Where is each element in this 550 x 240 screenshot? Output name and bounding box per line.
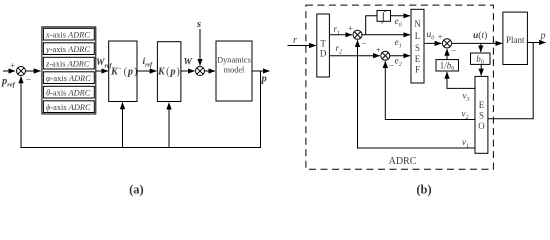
- wire 1/b0 to junction B3: [446, 49, 448, 60]
- wire feedback riser into K block: [168, 103, 170, 148]
- wire A2 to Dynamics model: [205, 70, 216, 72]
- svg-text:iref: iref: [143, 57, 154, 69]
- wire branch into b0: [480, 43, 482, 52]
- svg-text:b0: b0: [476, 54, 484, 66]
- block ESO: [475, 76, 488, 153]
- svg-text:pref: pref: [1, 76, 16, 89]
- svg-text:r2: r2: [336, 43, 343, 56]
- svg-text:S: S: [479, 111, 484, 121]
- block Plant: [503, 12, 528, 64]
- wire u(t) to Plant: [452, 42, 502, 44]
- wire K-inverse to K: [137, 70, 156, 72]
- wire p_ref input: [3, 70, 15, 72]
- svg-text:p: p: [261, 74, 267, 85]
- svg-text:K−(p): K−(p): [110, 65, 137, 78]
- block x-axis ADRC: [43, 28, 94, 40]
- wire v2 from ESO to junction B2: [385, 61, 475, 119]
- wire K to summing junction A2: [181, 70, 195, 72]
- svg-text:x-axis ADRC: x-axis ADRC: [45, 31, 90, 40]
- svg-text:Plant: Plant: [506, 35, 525, 45]
- block Dynamics model: [216, 41, 252, 101]
- summing junction B1: [353, 30, 362, 39]
- svg-text:K(p): K(p): [157, 67, 180, 78]
- svg-text:N: N: [414, 19, 421, 29]
- wire u0 from NLSEF to junction B3: [424, 42, 441, 44]
- svg-text:Wref: Wref: [96, 58, 112, 70]
- block ADRC stack outer box: [42, 27, 96, 114]
- wire branch to integrator: [366, 16, 377, 35]
- wire b0 to ESO: [480, 64, 482, 75]
- wire e0 to NLSEF: [391, 15, 411, 17]
- wire Plant output p: [527, 42, 545, 44]
- dashed ADRC boundary box: [306, 5, 494, 169]
- block K-inverse(p): [109, 41, 137, 102]
- wire v3 from ESO to 1/b0: [447, 72, 475, 88]
- wire ADRC stack to K-inverse block: [96, 70, 108, 72]
- svg-text:e1: e1: [395, 38, 402, 50]
- block TD: [317, 14, 330, 77]
- wire r2 from TD to junction B2: [329, 55, 379, 57]
- svg-text:v3: v3: [463, 90, 470, 103]
- svg-text:e2: e2: [395, 57, 402, 69]
- block integrator: [377, 11, 391, 22]
- svg-text:s: s: [196, 19, 201, 30]
- svg-text:(b): (b): [416, 183, 431, 197]
- svg-text:u0: u0: [427, 30, 435, 42]
- svg-text:e0: e0: [395, 17, 402, 29]
- svg-text:z-axis ADRC: z-axis ADRC: [45, 60, 90, 69]
- svg-text:r: r: [293, 35, 297, 46]
- svg-text:θ-axis ADRC: θ-axis ADRC: [46, 89, 91, 98]
- block b0: [471, 53, 491, 64]
- block K(p): [157, 42, 181, 102]
- svg-text:u(t): u(t): [473, 30, 487, 41]
- wire v1 from ESO to junction B1: [358, 40, 476, 148]
- block y-axis ADRC: [43, 43, 94, 55]
- svg-text:φ-axis ADRC: φ-axis ADRC: [46, 74, 91, 83]
- svg-text:T: T: [320, 39, 326, 49]
- svg-text:ADRC: ADRC: [389, 156, 417, 167]
- svg-text:y-axis ADRC: y-axis ADRC: [45, 45, 90, 54]
- block z-axis ADRC: [43, 57, 94, 69]
- wire Dynamics output p: [252, 70, 270, 72]
- summing junction B2: [381, 51, 390, 60]
- svg-text:ϕ-axis ADRC: ϕ-axis ADRC: [46, 103, 91, 112]
- block phi-axis ADRC: [43, 72, 94, 84]
- summing junction A2: [196, 67, 205, 76]
- svg-text:−: −: [361, 39, 366, 49]
- block 1/b0: [436, 60, 459, 71]
- svg-text:O: O: [478, 121, 485, 131]
- wire r1 from TD to junction B1: [329, 34, 352, 36]
- wire r into TD: [288, 45, 316, 47]
- wire e1 to NLSEF: [362, 34, 410, 36]
- svg-text:F: F: [415, 65, 420, 75]
- wire feedback riser into K-inverse block: [122, 103, 124, 148]
- svg-text:p: p: [540, 31, 546, 42]
- svg-text:−: −: [26, 75, 32, 86]
- wire A1 to ADRC stack: [26, 70, 41, 72]
- svg-text:1/b0: 1/b0: [440, 61, 455, 73]
- svg-text:D: D: [320, 49, 327, 59]
- wire e2 to NLSEF: [390, 55, 410, 57]
- svg-text:+: +: [10, 61, 15, 71]
- svg-text:L: L: [415, 31, 421, 41]
- block psi-axis ADRC: [43, 101, 94, 113]
- block NLSEF: [411, 9, 424, 83]
- svg-text:S: S: [415, 43, 420, 53]
- svg-text:+: +: [376, 45, 381, 55]
- svg-text:+: +: [348, 24, 353, 34]
- wire feedback from p to ESO: [488, 43, 533, 119]
- svg-text:+: +: [437, 32, 442, 42]
- svg-text:Dynamics: Dynamics: [217, 55, 251, 64]
- svg-text:E: E: [415, 54, 421, 64]
- svg-text:−: −: [389, 61, 394, 71]
- svg-text:E: E: [479, 100, 485, 110]
- svg-text:∫: ∫: [381, 9, 386, 24]
- summing junction B3: [442, 39, 451, 48]
- summing junction A1: [17, 67, 26, 76]
- svg-text:(a): (a): [129, 183, 144, 197]
- wire feedback drop from output: [21, 71, 261, 148]
- svg-text:model: model: [224, 65, 245, 74]
- svg-text:W: W: [184, 58, 193, 68]
- block theta-axis ADRC: [43, 86, 94, 98]
- svg-text:−: −: [451, 46, 456, 56]
- wire s to A2: [199, 29, 201, 66]
